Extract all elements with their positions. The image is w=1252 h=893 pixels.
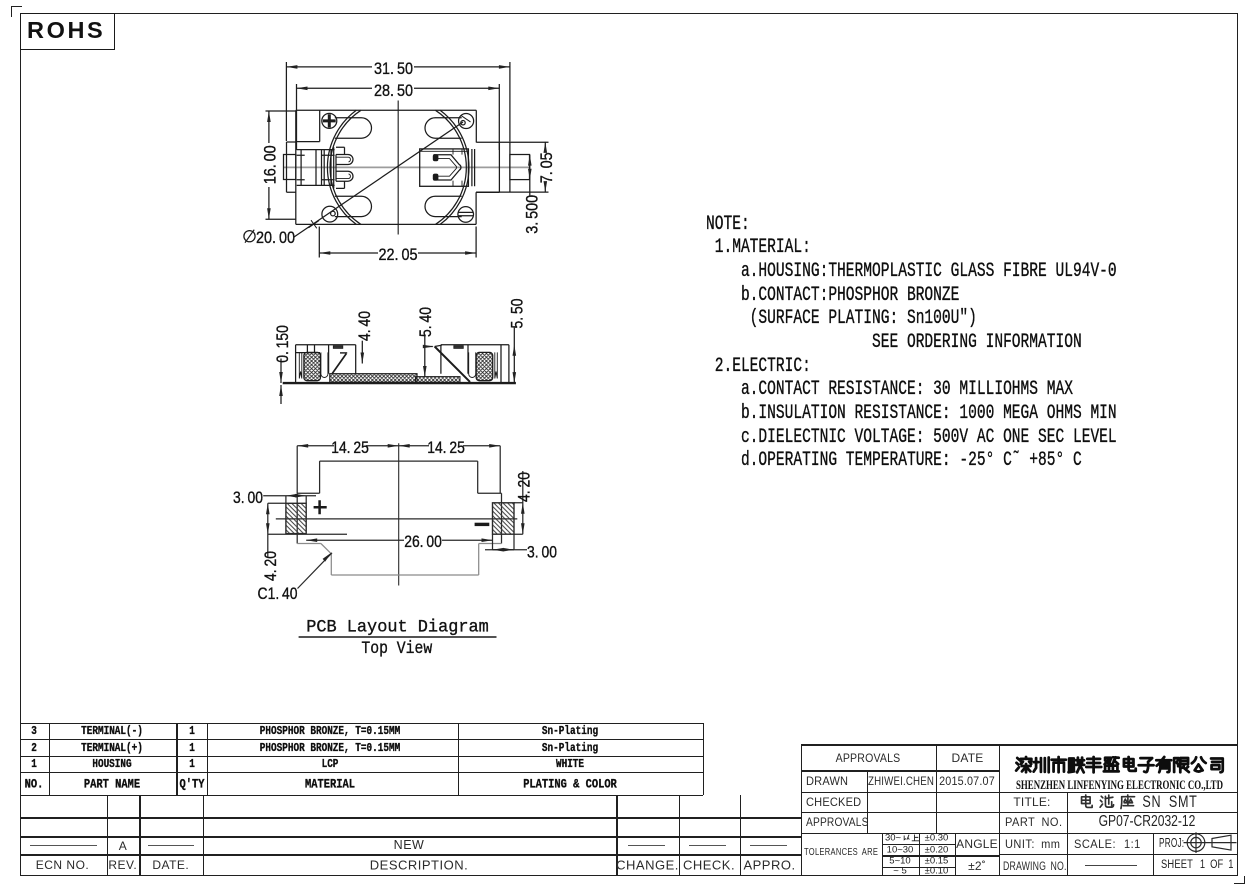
svg-text:5. 40: 5. 40 bbox=[417, 307, 435, 337]
svg-text:4. 20: 4. 20 bbox=[515, 472, 533, 502]
svg-text:4. 40: 4. 40 bbox=[356, 311, 374, 341]
svg-text:4. 20: 4. 20 bbox=[262, 551, 280, 581]
svg-text:14. 25: 14. 25 bbox=[331, 439, 369, 457]
svg-text:Top View: Top View bbox=[361, 638, 432, 659]
svg-text:31. 50: 31. 50 bbox=[374, 60, 413, 78]
svg-text:PCB Layout Diagram: PCB Layout Diagram bbox=[306, 617, 489, 638]
svg-text:3. 00: 3. 00 bbox=[527, 544, 557, 562]
svg-text:14. 25: 14. 25 bbox=[427, 439, 465, 457]
svg-text:7. 05: 7. 05 bbox=[538, 152, 556, 183]
svg-text:3. 500: 3. 500 bbox=[523, 195, 541, 234]
svg-text:C1. 40: C1. 40 bbox=[258, 585, 298, 603]
svg-text:22. 05: 22. 05 bbox=[378, 246, 417, 264]
svg-text:16. 00: 16. 00 bbox=[262, 145, 280, 184]
svg-text:0. 150: 0. 150 bbox=[274, 325, 292, 363]
svg-text:5. 50: 5. 50 bbox=[509, 299, 527, 329]
svg-text:3. 00: 3. 00 bbox=[233, 489, 263, 507]
svg-text:26. 00: 26. 00 bbox=[404, 533, 442, 551]
svg-text:28. 50: 28. 50 bbox=[374, 82, 413, 100]
svg-text:20. 00: 20. 00 bbox=[256, 229, 295, 247]
